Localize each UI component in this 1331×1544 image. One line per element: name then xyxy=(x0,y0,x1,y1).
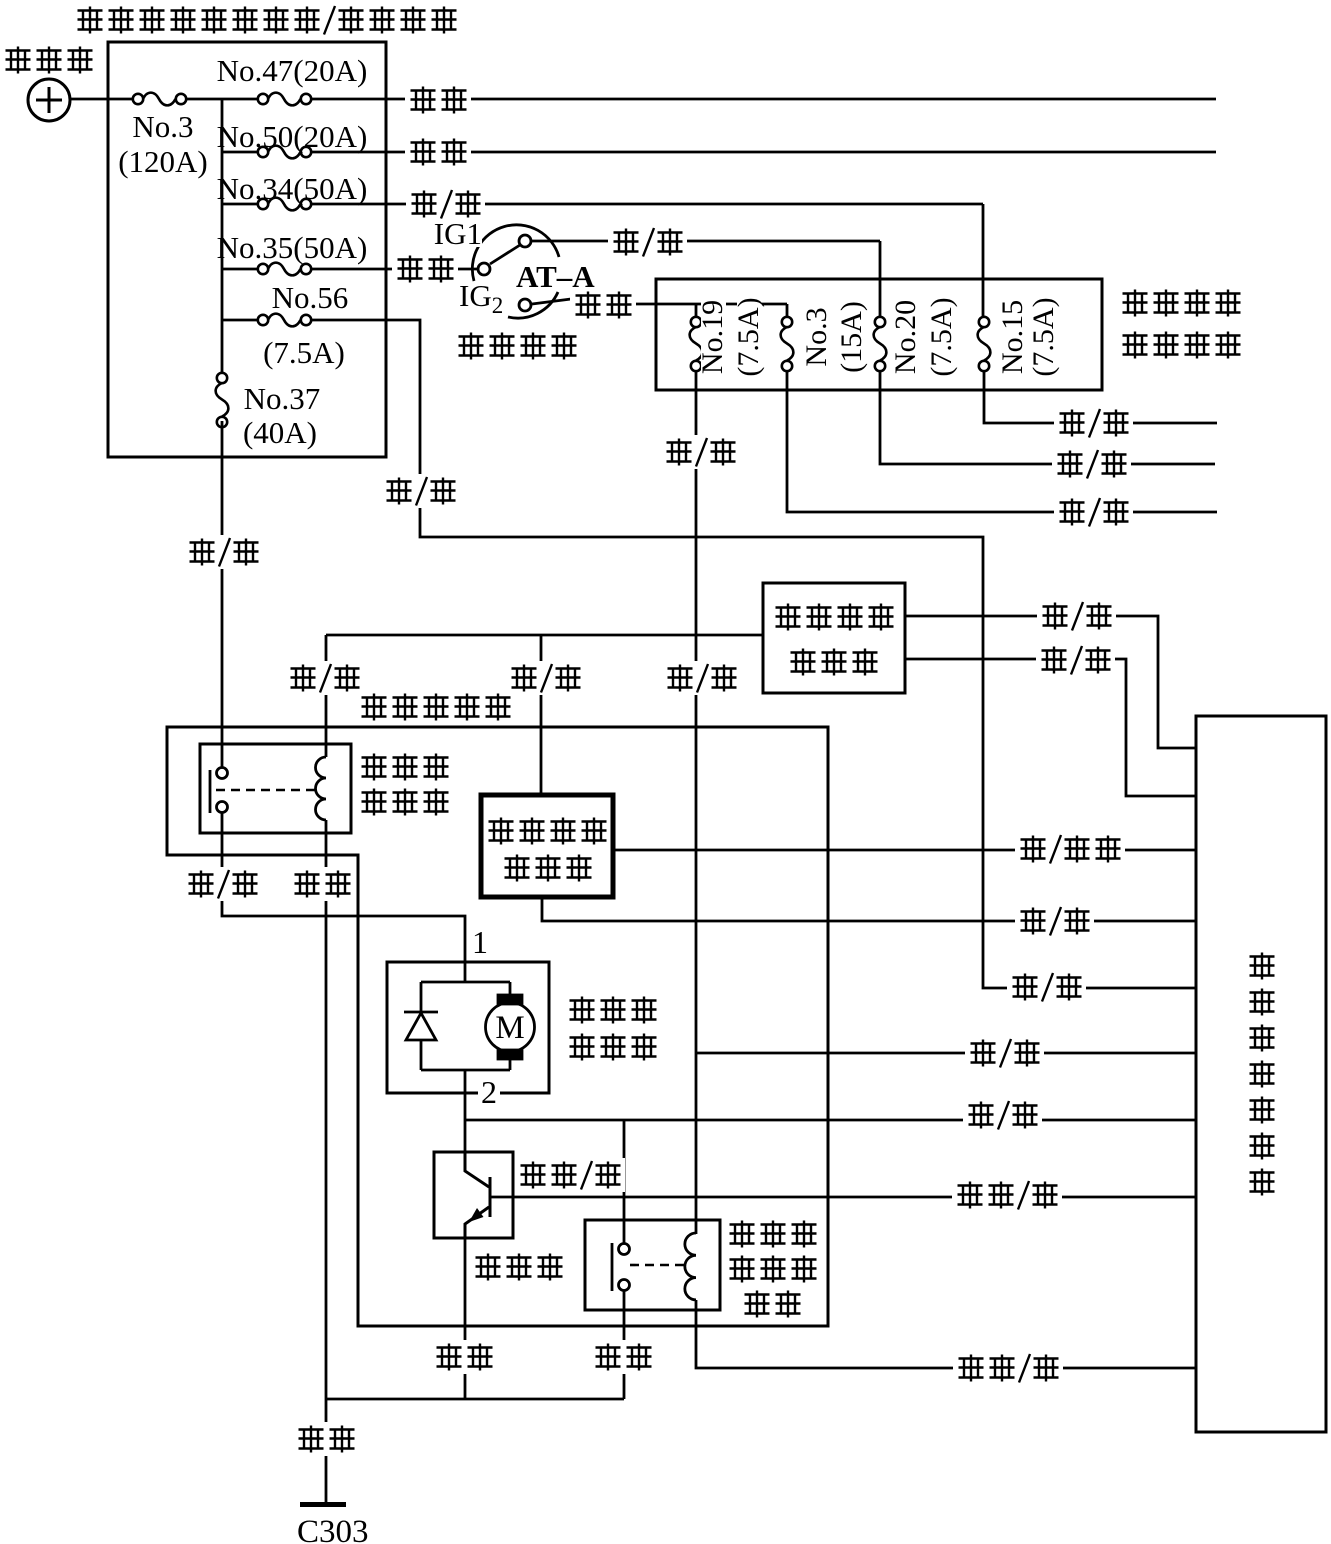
wire bus to No.34 xyxy=(222,203,258,206)
label 黄/蓝 No.15 xyxy=(1054,406,1133,440)
wire 蓝/黑 to controller xyxy=(465,1119,1196,1122)
wire 黑/黄 recirc drop xyxy=(540,635,543,795)
wire 白/黑 drop to No.15 xyxy=(982,204,985,317)
label 淡绿/黑 tr xyxy=(515,1158,625,1192)
svg-text:IG1: IG1 xyxy=(434,216,482,251)
label 黑色 ground xyxy=(293,1422,359,1456)
box blower high-speed relay 鼓风机高速继电器 xyxy=(585,1220,720,1310)
label 黄/蓝 No.3 xyxy=(1054,495,1133,529)
fuse No.20(7.5A) xyxy=(874,317,887,371)
wire ground bus xyxy=(326,1398,624,1401)
label 白/黄 No.56 xyxy=(381,474,460,508)
label 继电器 relay xyxy=(362,789,387,816)
box under-dash fuse box xyxy=(656,279,1102,390)
wire battery feed xyxy=(70,98,133,101)
svg-text:No.15: No.15 xyxy=(996,300,1029,374)
label 蓝/白 xyxy=(184,535,263,569)
wire 蓝/绿 to controller xyxy=(542,897,1196,921)
wire bus to No.50 xyxy=(222,151,258,154)
svg-text:1: 1 xyxy=(472,924,488,960)
wire 黑/黄 No.19 out long xyxy=(695,371,698,1234)
label (7.5A) f19 xyxy=(737,289,762,385)
wire stub No.19 top xyxy=(695,304,698,317)
fuse No.37(40A) xyxy=(216,373,229,427)
label 最大冷气 xyxy=(776,604,801,631)
label 白色 No.35 xyxy=(392,252,458,286)
fuse No.47(20A) xyxy=(258,93,311,106)
wire 黄/红 to controller xyxy=(905,659,1196,796)
svg-text:No.35(50A): No.35(50A) xyxy=(217,230,368,265)
fuse No.35(50A) xyxy=(258,263,311,276)
svg-text:(15A): (15A) xyxy=(835,301,868,373)
wire 淡绿/黑 transistor base to controller xyxy=(490,1196,1196,1199)
label terminal 2 xyxy=(478,1076,500,1106)
label 点火开关 xyxy=(459,333,484,360)
fuse No.19(7.5A) xyxy=(690,317,703,371)
wire 黄色 IG2 out xyxy=(571,303,787,306)
label 蓝/粉红 xyxy=(1015,832,1125,866)
label 黑/黄 a xyxy=(285,661,364,695)
svg-text:No.3: No.3 xyxy=(132,109,193,144)
ignition switch 点火开关 xyxy=(472,225,571,318)
label 发动机盖下熔断器/继电器盒 title xyxy=(78,7,103,34)
fuse No.15(7.5A) xyxy=(978,317,991,371)
fuse No.3(15A) xyxy=(781,317,794,371)
wire 黑/黄 IG1 out xyxy=(531,240,880,243)
svg-text:(40A): (40A) xyxy=(243,415,317,450)
fuse No.3(120A) xyxy=(133,93,186,106)
wire to C303 ground xyxy=(325,1399,328,1504)
wire 蓝/粉红 to controller xyxy=(613,849,1196,852)
svg-text:(7.5A): (7.5A) xyxy=(1027,297,1060,376)
label 白/黄 right xyxy=(1007,970,1086,1004)
fuse No.56(7.5A) xyxy=(258,314,311,327)
relay contact (blower relay) xyxy=(210,768,228,814)
svg-text:No.37: No.37 xyxy=(244,381,321,416)
relay coil (blower relay) xyxy=(316,757,327,820)
label 蓝/绿 xyxy=(1015,904,1094,938)
wire 黑色 relay coil down xyxy=(325,820,328,1399)
label 黑/黄 No.19 xyxy=(661,435,740,469)
fuse No.50(20A) xyxy=(258,146,311,159)
label 循环控制 xyxy=(489,818,514,845)
svg-text:No.50(20A): No.50(20A) xyxy=(217,119,368,154)
label IG2 xyxy=(457,285,507,313)
relay link dashed (HS relay) xyxy=(630,1264,688,1267)
ground C303 xyxy=(300,1502,346,1507)
label 蓝/黑 xyxy=(963,1098,1042,1132)
svg-text:2: 2 xyxy=(481,1074,497,1110)
box max-cool motor 最大冷气电动机 xyxy=(763,583,905,693)
wire 黑/黄 branch to controller xyxy=(696,1052,1196,1055)
label No.47(20A) xyxy=(218,55,368,84)
label 电动机 max xyxy=(791,649,816,676)
label 黄色 IG2 xyxy=(570,288,636,322)
label 鼓风机 hs xyxy=(724,1217,821,1251)
svg-text:No.47(20A): No.47(20A) xyxy=(217,53,368,88)
wire bus to No.35 xyxy=(222,268,258,271)
label 鼓风机 motor xyxy=(570,997,595,1024)
wire 白/黄 No.56 out xyxy=(311,320,1196,988)
wire HS relay contact down 黑色 xyxy=(623,1290,626,1399)
wire 白色 No.50 out xyxy=(311,151,1216,154)
label 黑色 tr emitter xyxy=(431,1340,497,1374)
label 白/黑 xyxy=(406,187,485,221)
label 空调温度控制器 xyxy=(1250,953,1275,980)
relay link dashed xyxy=(216,789,315,792)
label 电器 xyxy=(739,1287,805,1321)
label 鼓风机 relay xyxy=(362,754,387,781)
motor M (blower motor) xyxy=(465,982,535,1093)
svg-text:No.3: No.3 xyxy=(800,307,833,366)
label 电晶体 xyxy=(476,1254,501,1281)
wire stub No.3 top xyxy=(786,304,789,317)
box blower relay 鼓风机继电器 xyxy=(200,744,351,833)
svg-text:No.56: No.56 xyxy=(272,280,349,315)
wire 黑/黄 horizontal bus xyxy=(326,634,763,637)
svg-text:No.34(50A): No.34(50A) xyxy=(217,171,368,206)
label IG1 xyxy=(434,221,482,247)
label 鼓风机单元 xyxy=(356,690,515,724)
wire drop to HS relay contact xyxy=(623,1120,626,1244)
wire 蓝/红 relay contact to motor xyxy=(222,813,465,962)
box transistor 电晶体 xyxy=(434,1152,513,1238)
wire 黑/黄 relay coil drop xyxy=(325,635,328,757)
wire 粉红/白 HS coil to controller xyxy=(696,1300,1196,1368)
label 淡绿/黑 right xyxy=(952,1178,1062,1212)
wire 黄/蓝 No.3 out xyxy=(787,371,1217,512)
label 白色 No.50 xyxy=(405,135,471,169)
label 粉红/白 xyxy=(953,1351,1063,1385)
diode (blower motor) xyxy=(404,962,510,1070)
box recirculation control motor 循环控制电动机 xyxy=(481,795,613,897)
wire bus node vertical xyxy=(221,99,224,374)
label 熔断器盒 xyxy=(1123,332,1148,359)
wire 黑/红 No.20 out xyxy=(880,371,1215,464)
label 黑色 hs contact xyxy=(590,1340,656,1374)
wire 黄/黑 to controller xyxy=(905,616,1196,748)
wire motor 2 to transistor xyxy=(464,1093,467,1152)
label 蓄电池 xyxy=(6,47,31,74)
label 黑/黄 IG1 xyxy=(608,225,687,259)
svg-text:(7.5A): (7.5A) xyxy=(925,297,958,376)
label 白色 No.47 xyxy=(405,83,471,117)
label 电动机 recirc xyxy=(505,855,530,882)
transistor Q1 internals xyxy=(465,1152,490,1238)
svg-text:(7.5A): (7.5A) xyxy=(732,297,765,376)
label 蓝/红 xyxy=(183,867,262,901)
wire No.37 down 蓝/白 xyxy=(221,421,224,768)
wire 黄/蓝 No.15 out xyxy=(984,371,1217,423)
box engine compartment fuse/relay box xyxy=(108,42,386,457)
battery 蓄电池 xyxy=(28,79,70,121)
label 仪表板下 xyxy=(1123,290,1148,317)
wire 白色 No.47 out xyxy=(311,98,1216,101)
label 黑/黄 c xyxy=(662,661,741,695)
fuse No.34(50A) xyxy=(258,198,311,211)
label 黄/红 xyxy=(1036,643,1115,677)
relay contact (HS relay) xyxy=(612,1243,630,1291)
wire transistor emitter down 黑色 xyxy=(464,1238,467,1399)
wire bus to No.56 xyxy=(222,319,258,322)
svg-text:(7.5A): (7.5A) xyxy=(263,335,345,370)
label 黑/黄 b xyxy=(506,661,585,695)
label 黑/黄 right xyxy=(965,1036,1044,1070)
label No.19 xyxy=(701,297,726,377)
svg-text:No.20: No.20 xyxy=(889,300,922,374)
svg-text:M: M xyxy=(495,1010,524,1046)
label 黑/红 No.20 xyxy=(1052,447,1131,481)
relay coil (HS relay) xyxy=(685,1233,696,1300)
wire 白色 No.35 out to IG switch xyxy=(311,268,479,271)
box blower unit 鼓风机单元 xyxy=(167,727,828,1326)
wire node bus feed No.3 out xyxy=(185,98,258,101)
wire 白/黑 No.34 out xyxy=(311,203,983,206)
svg-text:C303: C303 xyxy=(297,1514,369,1544)
label 高速继 xyxy=(724,1252,821,1286)
box A/C temperature controller 空调温度控制器 xyxy=(1196,716,1326,1432)
svg-text:No.19: No.19 xyxy=(696,300,729,374)
label 黄/黑 xyxy=(1037,599,1116,633)
label 电动机 motor xyxy=(570,1034,595,1061)
box blower motor 鼓风机电动机 xyxy=(387,962,549,1093)
wire 黑/黄 drop to No.20 xyxy=(879,241,882,317)
label 黑色 coil xyxy=(289,867,355,901)
svg-text:(120A): (120A) xyxy=(118,144,208,179)
